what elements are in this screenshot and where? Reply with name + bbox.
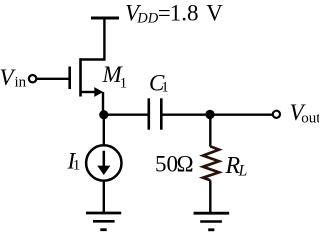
svg-text:1.8: 1.8 [170,1,199,26]
svg-text:50: 50 [155,151,178,176]
svg-text:1: 1 [161,79,169,95]
svg-text:out: out [301,110,319,126]
svg-text:Ω: Ω [177,151,194,176]
svg-text:DD: DD [136,10,158,26]
svg-text:V: V [206,1,223,26]
svg-text:1: 1 [120,76,128,92]
svg-text:L: L [238,163,248,180]
svg-text:in: in [15,75,27,91]
svg-text:1: 1 [73,158,81,174]
